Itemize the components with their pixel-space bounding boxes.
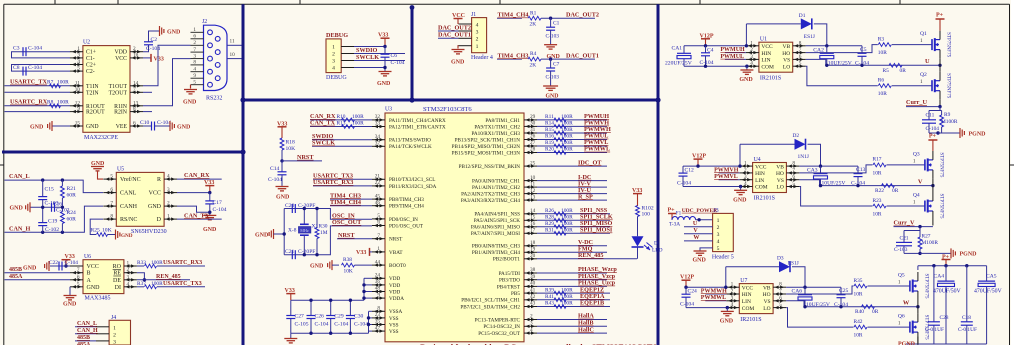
svg-text:7: 7 [133,87,136,93]
svg-text:11: 11 [230,39,235,45]
power port V33 above U6 [62,254,75,266]
svg-text:SWCLK: SWCLK [356,54,379,61]
svg-text:DE: DE [113,278,121,284]
electrolytic capacitor CA4 [933,266,962,344]
net label SWDIO [356,47,378,54]
net label SWCLK [356,54,379,61]
wire USARTC_RX3 to U3 [313,185,372,187]
svg-text:3: 3 [193,53,196,59]
wire U5 GND pin2 jog [177,206,210,212]
svg-text:DAC_OUT1: DAC_OUT1 [566,52,599,59]
svg-text:P+: P+ [936,13,944,19]
resistor R37 100R [137,281,163,289]
svg-text:C27: C27 [295,314,305,320]
svg-text:LED: LED [652,248,663,254]
svg-text:100R: 100R [561,221,573,227]
svg-text:0R: 0R [872,309,879,315]
svg-text:U: U [693,221,698,227]
resistor R41 100R [545,294,573,302]
wire U6 RE-DE tie [137,273,144,280]
svg-text:C1+: C1+ [86,50,96,56]
wire Q6 source to PGND [917,337,919,344]
svg-text:GND: GND [310,263,324,269]
svg-text:10: 10 [75,87,81,93]
resistor R5 0R [883,63,907,73]
svg-text:7: 7 [792,167,795,173]
svg-text:100: 100 [642,212,651,218]
net label USARTC_RX3 at U6 [163,260,202,266]
svg-text:PGND: PGND [969,131,987,137]
junction dot phase U1 [938,64,941,67]
net label phase V [918,178,923,185]
junction dot (62.4,207.3) [61,206,64,209]
connector J4 body [109,320,130,345]
net label CAN_H [9,226,30,233]
svg-text:PA10/RX1/TIM1_CH3: PA10/RX1/TIM1_CH3 [471,131,520,137]
power port V33 at U5 [204,180,214,193]
svg-text:4: 4 [717,239,720,245]
resistor R9 M100R [940,111,958,134]
svg-text:2: 2 [750,47,753,53]
svg-text:R29: R29 [545,221,554,227]
wire TIM4_CH4 to R1 [497,17,522,19]
svg-text:STP75NF75: STP75NF75 [938,152,943,178]
wire R2OUT [5,111,71,113]
wire V33 to C6 [384,47,386,55]
svg-text:VDD: VDD [114,50,127,56]
wire U2 GND pin15 [52,125,70,127]
svg-text:R21: R21 [67,186,77,192]
wire I-DC [537,174,607,181]
wire USARTC_TX to T1IN [5,85,71,87]
connector J2 DB9 shell [204,25,228,90]
net label phase U [925,58,930,65]
svg-text:4: 4 [167,174,170,180]
svg-text:T1IN: T1IN [86,84,99,90]
net label V at J3 [693,228,698,234]
svg-text:PB13/SPI2_SCK/TIM1_CH1N: PB13/SPI2_SCK/TIM1_CH1N [455,137,521,143]
svg-text:TIM4_CH4: TIM4_CH4 [498,12,529,19]
junction dot phase U4 [931,184,934,187]
svg-text:1: 1 [332,45,335,51]
svg-text:PA0/AIN0/TIM2_CH1: PA0/AIN0/TIM2_CH1 [472,179,520,185]
bootstrap cap values U1 [828,60,869,66]
transistor Q5 STP75NF75 [898,272,929,300]
connector J3 body [713,213,734,251]
svg-text:VCC: VCC [115,56,127,62]
wire SPI1_MISO [537,226,610,228]
power port V33 above DEBUG [378,33,390,47]
svg-text:6: 6 [377,220,380,226]
svg-text:C3: C3 [13,46,20,52]
svg-text:C21: C21 [900,235,909,241]
svg-text:EQEP1B: EQEP1B [580,300,604,307]
wire PWMWH [537,132,607,134]
wire diode cathode U1 [814,24,827,46]
svg-text:VCC: VCC [761,44,773,50]
IC U1 IR2101S body [759,42,793,72]
svg-text:C5: C5 [860,47,867,53]
U2 designator [83,40,90,46]
wire gate bottom U1 [892,79,932,86]
svg-text:PC13-TAMPER-RTC: PC13-TAMPER-RTC [475,317,521,323]
ground earth below decoupling [284,333,297,343]
U5 designator [117,167,124,173]
svg-text:HO: HO [763,292,771,298]
svg-text:R28: R28 [545,215,554,221]
wire gate top U7 [868,280,910,287]
svg-text:5: 5 [193,80,196,86]
svg-text:R: R [157,177,161,183]
svg-text:C-104: C-104 [391,60,405,66]
ground earth below J3 [693,251,707,264]
net label DAC_OUT1 at J1 [438,32,471,39]
net label OSC_OUT [332,219,362,226]
power port GND above C2 [160,26,182,36]
svg-text:Header 5: Header 5 [712,255,734,261]
svg-text:R39: R39 [545,287,554,293]
svg-text:100R: 100R [561,147,573,153]
svg-text:2: 2 [127,267,130,273]
svg-text:DAC_OUT2: DAC_OUT2 [566,12,599,19]
svg-text:PA12/TIM1_ETR/CANTX: PA12/TIM1_ETR/CANTX [389,124,446,130]
wire to PGND U [938,132,960,134]
junction dots VDD [362,283,365,300]
svg-text:8: 8 [377,306,380,312]
svg-text:8: 8 [133,106,136,112]
svg-text:CAN_H: CAN_H [77,328,98,334]
capacitor C29 C-104 [326,314,348,328]
resistor R14 100R [545,121,573,129]
svg-text:C30: C30 [354,314,364,320]
svg-text:35: 35 [375,319,381,325]
svg-text:C2: C2 [151,37,158,43]
capacitor C17 [205,200,226,213]
wire phase rail U1 [826,64,940,66]
resistor R23 10R [873,198,887,218]
wire IV-V [537,180,607,187]
svg-text:100R: 100R [561,228,573,234]
wire U6 RO to R33 [137,265,144,267]
svg-text:47: 47 [375,325,381,331]
wire VSS vertical bus [368,312,370,334]
svg-text:41: 41 [530,287,536,293]
power port PGND V [951,248,977,258]
wire U5 VCC to V33 [177,192,210,194]
svg-text:GND: GND [10,206,24,212]
svg-text:100R: 100R [561,215,573,221]
capacitor C24 U7 [680,287,697,307]
wire P+ rail [918,265,987,267]
wire shunt top rail U [929,107,942,111]
net label CAN_TX [184,212,210,219]
wire EQEP1B [537,306,610,308]
junction dot anode U1 [745,44,748,47]
svg-text:2: 2 [133,46,136,52]
net label PWMWL [584,146,610,153]
svg-text:2K: 2K [530,62,537,68]
net label EQEP1Z [580,286,604,293]
svg-text:PB11/RX3/I2C1_SDA: PB11/RX3/I2C1_SDA [389,184,437,190]
svg-text:C-102: C-102 [56,208,70,214]
junction dot (62.4,232.3) [61,231,64,234]
wire HIN U7 [705,293,726,295]
svg-text:C8: C8 [13,65,20,71]
svg-text:T2OUT: T2OUT [109,90,128,96]
J1 pin stubs [459,24,472,46]
svg-text:100R: 100R [151,281,163,287]
power port GND at R25 [116,230,133,240]
power port GND left of C22 [23,261,49,271]
svg-text:VB: VB [783,44,791,50]
svg-text:GND: GND [255,233,269,239]
svg-text:LO: LO [777,185,784,191]
capacitor C27 C-105 [286,314,308,328]
net label Curr_U [906,99,927,106]
wire CAN_RX [310,119,372,121]
svg-text:TIM4_CH4: TIM4_CH4 [330,199,361,206]
svg-text:MHz: MHz [300,228,309,233]
wire C8 loop pins 4-5 [12,65,71,72]
svg-text:PA3/AIN3/RX2/TIM2_CH4: PA3/AIN3/RX2/TIM2_CH4 [461,198,521,204]
svg-text:PA5/AIN5/SPI1_SCK: PA5/AIN5/SPI1_SCK [474,218,520,224]
junction dot (282,160.9) [280,159,283,162]
svg-text:34: 34 [375,134,381,140]
svg-text:PD1/OSC_OUT: PD1/OSC_OUT [389,223,424,229]
svg-text:Q2: Q2 [920,72,927,78]
U3 right pins [524,114,537,335]
wire C7 to earth [550,71,552,86]
wire termination midpoint [30,206,62,208]
wire PHASE_Wzcp [537,266,617,273]
svg-text:Q6: Q6 [898,314,905,320]
resistor R38 10K [342,257,355,274]
wire R33 to USARTC_RX3 [157,265,205,267]
svg-text:PWMVL: PWMVL [714,174,738,180]
svg-text:C-104: C-104 [334,322,348,328]
svg-text:36: 36 [375,279,381,285]
svg-text:R20: R20 [545,147,554,153]
wire decoupling top rail [291,299,364,301]
svg-text:PWMVH: PWMVH [714,167,739,173]
capacitor C20 C-20PF [285,203,315,213]
svg-text:GND: GND [63,302,77,308]
svg-text:SWCLK: SWCLK [312,140,335,147]
net label USARTC_RX [10,99,48,106]
svg-text:1: 1 [913,200,916,206]
svg-text:R3: R3 [878,36,885,42]
junction dot VB U7 [803,286,806,289]
wire COM rail U4 [683,186,740,188]
capacitor C5 [858,46,867,66]
svg-text:17: 17 [530,228,536,234]
svg-text:PB10/TX3/I2C1_SCL: PB10/TX3/I2C1_SCL [389,177,435,183]
U4 right pin names [776,164,784,190]
svg-text:3: 3 [127,274,130,280]
svg-text:44: 44 [375,259,381,265]
junction dot VB U1 [825,44,828,47]
svg-text:Header 4: Header 4 [471,55,493,61]
net label CAN_L [9,173,30,180]
ground earth U4 [733,187,747,204]
svg-text:IR2101S: IR2101S [740,317,761,323]
transistor Q6 STP75NF75 [898,313,929,341]
svg-text:PD0/OSC_IN: PD0/OSC_IN [389,217,418,223]
wire gate top U4 [887,158,925,165]
svg-text:14: 14 [530,208,536,214]
wire shunt bottom rail V [904,252,922,255]
diode D3 ES1J [777,256,799,273]
svg-text:10R: 10R [878,50,887,56]
capacitor C3 [13,46,42,57]
svg-text:C21: C21 [285,249,295,255]
svg-text:NRST: NRST [297,154,314,161]
net label PWMUL [584,133,608,140]
svg-text:1: 1 [920,79,923,85]
U1 left pins [746,40,759,68]
wire USARTC_TX3 to U3 [313,178,372,180]
capacitor C21 C-20PF [285,249,315,259]
net label PWMVL [584,139,608,146]
svg-text:U: U [925,58,930,65]
wire DAC_OUT1 to J1 pin2 [438,37,459,39]
net label 485B [9,267,22,273]
svg-text:Q5: Q5 [898,273,905,279]
svg-text:R13: R13 [337,121,346,127]
power port PGND bottom [898,342,916,345]
svg-text:1: 1 [113,325,116,331]
wire REN_485 [537,252,637,259]
wire VB rail U4 [799,165,858,167]
svg-text:U3: U3 [385,107,392,113]
power port P+ fuse [668,208,677,220]
svg-text:STP75NF75: STP75NF75 [938,193,943,219]
resistor R39 100R [545,287,573,295]
net label DAC_OUT2 [566,12,599,19]
wire Qtop source U1 [939,59,941,66]
capacitor C1 C-103 [546,21,560,40]
svg-text:C25: C25 [839,288,849,294]
svg-text:0R: 0R [900,68,907,74]
svg-text:8: 8 [779,282,782,288]
resistor R20 100R [545,147,573,155]
net label U at J3 [693,221,698,227]
svg-text:GND: GND [148,204,162,210]
wire NRST node to C14 [281,161,283,172]
wire TIM4_CH3 to R4 [497,58,522,60]
net label SWCLK at U3 [312,140,335,147]
junction dot (42.7,180.1) [41,178,44,181]
electrolytic capacitor CA2 [813,46,834,66]
svg-text:10: 10 [230,52,236,58]
svg-text:42: 42 [530,294,536,300]
svg-text:C-105: C-105 [295,322,309,328]
svg-text:1: 1 [744,161,747,167]
net label CAN_L at J4 [77,321,97,327]
svg-text:HO: HO [782,51,790,57]
U6 left pins [70,267,83,288]
U3 left pins [372,114,385,333]
U6 designator [84,254,91,260]
wire T1OUT to J2 pin2 [143,45,191,86]
ground earth below C17 [203,215,217,233]
capacitor C7 C-103 [546,62,560,81]
svg-text:5: 5 [792,181,795,187]
capacitor C22 [49,260,78,271]
svg-text:U7: U7 [740,278,747,284]
J2 pin circles right [215,36,220,80]
U3 designator [385,107,392,113]
wire node to C7 [550,59,552,68]
wire Qtop source U7 [917,300,919,307]
svg-text:100R: 100R [561,127,573,133]
U6 right pin names [113,264,122,291]
wire Curr_U [939,100,941,106]
svg-text:100R: 100R [352,114,364,120]
svg-text:B: B [87,271,91,277]
svg-text:3: 3 [167,187,170,193]
wire shunt chain top V [904,227,920,231]
svg-text:PA4/AIN4/SPI1_NSS: PA4/AIN4/SPI1_NSS [474,212,520,218]
wire decoupling bottom rail [291,332,369,334]
svg-text:8: 8 [110,214,113,220]
IC U7 IR2101S body [739,284,773,314]
svg-text:STP75NF75: STP75NF75 [946,32,951,58]
svg-text:VDD: VDD [389,289,400,295]
svg-text:VCC: VCC [755,164,767,170]
svg-text:29: 29 [530,114,536,120]
svg-text:C17: C17 [213,200,223,206]
svg-text:PB7/I2C1_SDA/TIM4_CH2: PB7/I2C1_SDA/TIM4_CH2 [460,304,520,310]
wire 485B to J4 [75,340,96,342]
wire VCC rail U4 [683,165,740,167]
svg-text:R19: R19 [545,140,554,146]
svg-text:C2+: C2+ [86,63,96,69]
svg-text:VSS: VSS [389,322,399,328]
electrolytic capacitor CA5 [974,266,1003,344]
U1 right pins [793,40,806,68]
svg-text:R2OUT: R2OUT [86,110,105,116]
svg-text:C13: C13 [856,167,866,173]
svg-text:PB2/BOOT1: PB2/BOOT1 [493,257,521,263]
diode D1 ES1J [799,13,815,40]
svg-text:C-104: C-104 [28,65,42,71]
svg-text:38: 38 [530,267,536,273]
U7 right pins [773,282,786,310]
wire U2 VDD to C2 [143,45,149,52]
U4 left pins [740,161,753,189]
svg-text:R31: R31 [545,228,554,234]
junction dot divider (412,7) [410,5,415,10]
J2 pin 10 wire to bus [227,52,242,59]
net label 485A at J4 [77,342,91,345]
svg-text:5: 5 [717,246,720,252]
power port V12P U1 [700,33,714,46]
svg-text:NRST: NRST [338,232,355,239]
svg-text:VDD: VDD [389,283,400,289]
net label USARTC_TX3 at U3 [313,173,353,180]
capacitor C13 [854,166,866,186]
U5 value SN65HVD230 [131,229,167,235]
junction dot (550.6,59.1) [549,57,552,60]
svg-text:100R: 100R [151,260,163,266]
wire R4 to DAC_OUT1 [541,58,595,60]
svg-text:C11: C11 [926,113,935,119]
svg-text:GND: GND [720,319,734,325]
wire PWMVH [537,125,607,127]
wire R1IN to J2 pin3 [143,59,191,106]
junction dots VSS [367,316,370,326]
